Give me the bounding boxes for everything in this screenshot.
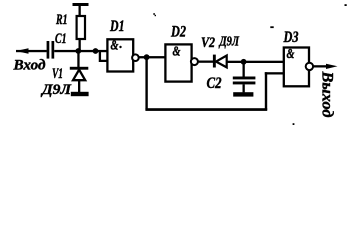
speck top-right: [345, 4, 347, 6]
diode V1 triangle: [73, 70, 85, 81]
svg-text:C1: C1: [55, 31, 67, 47]
svg-text:Д9Л: Д9Л: [218, 34, 239, 49]
svg-text:V1: V1: [52, 66, 63, 82]
diode V1 lead: [77, 51, 79, 67]
svg-text:D2: D2: [170, 24, 186, 41]
diode V1 cathode bar: [70, 67, 89, 70]
input arrow: [16, 48, 29, 54]
diode V2 cathode bar: [213, 55, 216, 68]
svg-text:Выход: Выход: [319, 70, 336, 117]
capacitor C2 bottom plate: [233, 82, 256, 85]
output arrow: [326, 64, 338, 69]
gate D2: [165, 44, 191, 81]
feedback wire: D1 output down: [145, 57, 147, 109]
stray mark: [270, 26, 273, 28]
capacitor C2 lower lead: [243, 84, 245, 92]
diode V1 lower lead: [78, 80, 80, 92]
svg-text:D1: D1: [109, 18, 124, 35]
wire: D1 lower input branch: [100, 52, 108, 61]
feedback wire: riser to D3: [265, 72, 267, 110]
svg-text:D3: D3: [283, 29, 299, 46]
node: feedback takeoff: [144, 54, 150, 60]
svg-text:&: &: [287, 47, 295, 62]
wire: V2 to D3 input: [227, 61, 284, 63]
D2 output bubble: [191, 58, 198, 65]
wire: input terminal to C1: [16, 50, 47, 52]
capacitor C2 top plate: [233, 77, 256, 80]
svg-text:&: &: [173, 45, 181, 60]
node: R1/V1 junction: [75, 48, 81, 54]
power symbol bar: [73, 3, 89, 6]
power stub: [79, 6, 81, 16]
capacitor C2 upper lead: [243, 62, 245, 77]
svg-text:Д9Л: Д9Л: [40, 82, 72, 98]
feedback wire: to D3 lower input: [265, 72, 284, 74]
speck above D1-D2 wire: [153, 13, 155, 15]
gate D1: [107, 39, 133, 71]
wire: D2 to V2: [198, 61, 213, 63]
ground (V1): [71, 92, 89, 96]
wire: R1 lead to node: [79, 40, 81, 51]
svg-text:Вход: Вход: [12, 57, 46, 73]
resistor R1: [77, 16, 85, 39]
ground (C2): [233, 92, 253, 96]
wire: D3 output: [313, 65, 329, 67]
speck bottom-right: [293, 123, 295, 125]
diode V2 triangle: [216, 56, 227, 68]
node: D1 input branch: [93, 48, 99, 54]
svg-text:R1: R1: [55, 12, 67, 28]
capacitor C1: [47, 41, 50, 59]
D3 output bubble: [306, 63, 313, 70]
wire: C1 to D1 input: [54, 50, 108, 52]
D1 output bubble: [132, 54, 139, 61]
svg-text:V2: V2: [201, 35, 215, 51]
feedback wire: bottom rail: [145, 108, 267, 111]
node: C2 junction: [241, 59, 247, 65]
wire: D1 to D2: [139, 56, 166, 58]
gate D3: [284, 48, 309, 87]
svg-text:C2: C2: [207, 75, 222, 92]
svg-text:&: &: [111, 39, 119, 54]
